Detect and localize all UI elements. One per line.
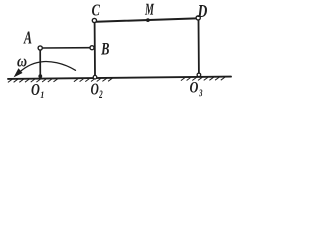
omega arc xyxy=(20,62,76,73)
rod C-O2 xyxy=(94,23,96,76)
label O2 xyxy=(91,84,99,95)
top bar CD xyxy=(96,18,196,21)
link AB xyxy=(42,47,90,49)
pin C xyxy=(92,18,96,22)
omega arrowhead xyxy=(14,68,23,77)
label M xyxy=(145,4,154,15)
label O3 subscript xyxy=(199,90,202,97)
ground hatching xyxy=(8,77,225,82)
label O2 subscript xyxy=(99,91,102,98)
label O3 xyxy=(190,82,198,92)
mass point M xyxy=(146,18,150,22)
ground line xyxy=(8,77,231,79)
pin D xyxy=(196,16,200,20)
pin B xyxy=(90,46,94,50)
label B xyxy=(101,43,109,55)
crank O1A xyxy=(39,50,41,75)
rod D-O3 xyxy=(198,20,200,73)
label C xyxy=(92,5,100,16)
pivot O2 xyxy=(93,75,97,79)
label D xyxy=(198,5,208,17)
pivot O1 xyxy=(38,74,42,78)
label A xyxy=(23,31,31,43)
label O1 subscript xyxy=(41,91,44,98)
label omega xyxy=(17,59,26,67)
pivot O3 xyxy=(197,73,201,77)
label O1 xyxy=(32,84,40,95)
pin A xyxy=(38,46,42,50)
